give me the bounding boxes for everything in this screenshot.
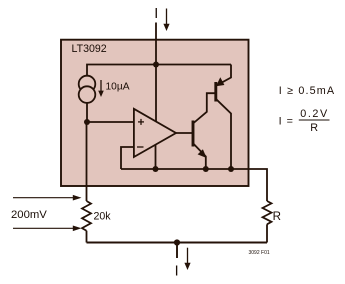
op-amp plus label — [138, 119, 144, 125]
node op-amp V- junction — [153, 166, 159, 172]
transistor Q1 NPN — [193, 93, 215, 169]
arrow 200mV top — [13, 195, 82, 201]
wire op-amp V- supply tap — [155, 145, 157, 169]
op-amp A1 — [134, 109, 176, 157]
svg-text:=: = — [287, 116, 293, 128]
svg-text:I: I — [154, 6, 158, 22]
resistor RSET 20k — [82, 201, 91, 231]
svg-text:200mV: 200mV — [11, 209, 47, 221]
wire SET pin down — [86, 122, 88, 201]
wire IN vertical — [155, 23, 157, 65]
op-amp minus label — [137, 146, 144, 148]
wire bottom rail — [87, 242, 268, 244]
svg-text:0.2V: 0.2V — [300, 108, 328, 120]
wire 20k to bottom rail — [86, 231, 88, 243]
wire op-amp output — [176, 132, 193, 134]
svg-text:I: I — [175, 264, 179, 280]
arrow 200mV bottom — [13, 226, 82, 232]
svg-text:I ≥ 0.5mA: I ≥ 0.5mA — [279, 85, 335, 97]
arrow 10uA direction — [98, 80, 104, 97]
IC body LT3092 — [61, 40, 249, 186]
transistor Q2 PNP pass — [216, 65, 231, 170]
node IN junction — [153, 62, 159, 68]
svg-text:3092 F01: 3092 F01 — [249, 250, 270, 256]
formula I = 0.2V / R — [279, 108, 330, 134]
wire inverting input feedback — [121, 147, 134, 169]
current direction arrow (bottom) — [184, 248, 190, 270]
wire SET to op-amp noninverting input — [87, 121, 134, 123]
svg-text:20k: 20k — [94, 210, 112, 222]
wire op-amp V+ supply tap — [155, 65, 157, 122]
svg-text:LT3092: LT3092 — [72, 43, 107, 55]
resistor R — [263, 201, 272, 224]
current direction arrow (top) — [163, 9, 169, 32]
wire inner OUT rail — [121, 169, 267, 201]
node Q1 emitter junction — [203, 166, 209, 172]
node OUT junction — [174, 239, 180, 245]
node Q2 collector junction — [228, 166, 234, 172]
svg-text:I: I — [279, 116, 282, 128]
current source I1 10uA — [79, 76, 96, 103]
wire top rail — [87, 65, 231, 76]
svg-text:R: R — [273, 210, 281, 223]
wire R to bottom rail — [266, 224, 268, 242]
node SET junction — [84, 119, 90, 125]
svg-text:10µA: 10µA — [106, 81, 130, 92]
svg-text:R: R — [310, 122, 318, 134]
wire OUT stub — [176, 243, 178, 259]
wire current source to SET node — [86, 103, 88, 122]
